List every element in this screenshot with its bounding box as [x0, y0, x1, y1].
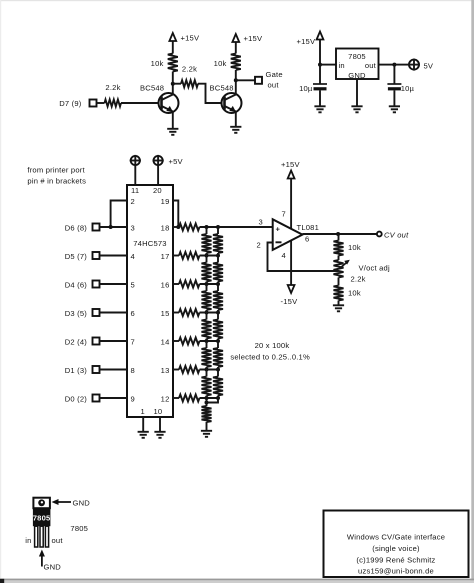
- svg-text:GND: GND: [348, 71, 366, 80]
- resistor 100k rung B rows 15-14: [217, 313, 219, 320]
- wire rail-right bottom jog: [207, 398, 219, 403]
- power +5V terminal (pin 20): [154, 156, 163, 165]
- svg-text:10k: 10k: [348, 289, 361, 298]
- op-amp U3 TL081: [273, 219, 303, 250]
- node psu input: [318, 63, 322, 67]
- junction rail-right row 17: [216, 254, 220, 258]
- svg-text:(single voice): (single voice): [372, 544, 420, 553]
- svg-text:+15V: +15V: [281, 160, 300, 169]
- svg-text:10k: 10k: [214, 59, 227, 68]
- svg-text:8: 8: [131, 366, 135, 375]
- resistor 10k (output divider bottom): [338, 278, 340, 286]
- svg-text:out: out: [365, 61, 377, 70]
- svg-text:7805: 7805: [33, 514, 51, 523]
- svg-text:GND: GND: [44, 563, 62, 572]
- wire pin 1 to ground: [142, 417, 144, 432]
- wire D7 to R1: [97, 102, 105, 104]
- capacitor 10u (output): [393, 65, 395, 84]
- svg-text:19: 19: [161, 197, 170, 206]
- svg-text:1: 1: [141, 407, 145, 416]
- wire gate out: [236, 79, 255, 81]
- terminal Gate out: [255, 77, 262, 84]
- svg-text:BC548: BC548: [140, 84, 164, 93]
- resistor 100k rung B rows 13-12: [217, 370, 219, 377]
- wire D1 to IC: [100, 369, 128, 371]
- wire Q1 collector: [172, 84, 174, 95]
- wire D4 to IC: [100, 283, 128, 285]
- resistor 10k (Q1 collector): [172, 72, 174, 84]
- resistor 100k rung A rows 17-16: [206, 256, 208, 263]
- svg-text:7805: 7805: [70, 524, 88, 533]
- wire U2 GND pin: [356, 79, 358, 106]
- terminal D3: [93, 309, 100, 316]
- svg-text:6: 6: [131, 309, 135, 318]
- svg-text:2: 2: [257, 241, 261, 250]
- wire ladder top to op-amp: [218, 226, 273, 228]
- svg-text:GND: GND: [73, 499, 91, 508]
- svg-text:10k: 10k: [151, 59, 164, 68]
- wire D2 to IC: [100, 340, 128, 342]
- wire to +15V (Q2): [235, 42, 237, 54]
- node psu output: [392, 63, 396, 67]
- svg-text:7: 7: [131, 338, 135, 347]
- svg-text:15: 15: [161, 309, 170, 318]
- junction rail-left row 13: [205, 368, 209, 372]
- resistor 100k rung A rows 13-12: [206, 370, 208, 377]
- junction rail-left row 12: [205, 396, 209, 400]
- 7805 leg out: [45, 526, 48, 547]
- wire op-amp output: [302, 233, 377, 235]
- terminal D6: [93, 224, 100, 231]
- wire Q2 collector: [235, 80, 237, 95]
- power -15V arrow (U3): [288, 285, 295, 293]
- junction rail-right row 15: [216, 311, 220, 315]
- svg-text:Gate: Gate: [266, 70, 283, 79]
- terminal CV out: [377, 232, 382, 237]
- svg-text:D4 (6): D4 (6): [65, 281, 88, 290]
- terminal D5: [93, 252, 100, 259]
- svg-text:+15V: +15V: [244, 34, 263, 43]
- svg-text:pin # in brackets: pin # in brackets: [27, 177, 86, 186]
- power +5V terminal (pin 11): [131, 156, 140, 165]
- svg-text:10µ: 10µ: [299, 84, 313, 93]
- power +15V arrow (Q1): [169, 33, 176, 41]
- regulator U2 7805: [336, 49, 379, 80]
- wire pin 11: [134, 166, 136, 185]
- svg-text:D0 (2): D0 (2): [65, 395, 88, 404]
- wire cap to ground: [319, 90, 321, 106]
- junction rail-left row 18: [205, 225, 209, 229]
- 7805 package body: [33, 508, 51, 526]
- svg-text:Windows CV/Gate interface: Windows CV/Gate interface: [347, 533, 445, 542]
- resistor 100k (pin 17): [173, 255, 179, 257]
- svg-text:12: 12: [161, 395, 170, 404]
- svg-text:6: 6: [305, 235, 309, 244]
- svg-text:7: 7: [282, 210, 286, 219]
- junction rail-left row 14: [205, 339, 209, 343]
- wire U2 out: [379, 64, 395, 66]
- ground (Q1 emitter): [167, 128, 178, 130]
- svg-text:from printer port: from printer port: [27, 166, 85, 175]
- junction rail-left row 17: [205, 254, 209, 258]
- terminal D0: [93, 395, 100, 402]
- svg-text:18: 18: [161, 224, 170, 233]
- wire node to U2 in: [320, 64, 336, 66]
- wire pin 2 loop to D6: [111, 201, 127, 228]
- junction pin19/pin18: [176, 225, 180, 229]
- wire to 5V: [394, 64, 409, 66]
- wire inverting input loop: [268, 243, 339, 272]
- node Q1 collector: [171, 82, 175, 86]
- ground (pin 10): [154, 431, 165, 433]
- node output: [336, 232, 340, 236]
- svg-text:D5 (7): D5 (7): [65, 252, 88, 261]
- svg-text:2.2k: 2.2k: [105, 83, 120, 92]
- svg-text:(c)1999 René Schmitz: (c)1999 René Schmitz: [356, 556, 435, 565]
- svg-text:out: out: [268, 81, 280, 90]
- svg-text:D6 (8): D6 (8): [65, 224, 88, 233]
- resistor 100k rung A rows 16-15: [206, 284, 208, 291]
- junction rail-right row 16: [216, 282, 220, 286]
- wire Q1 emitter: [172, 113, 174, 129]
- terminal D2: [93, 338, 100, 345]
- transistor Q2 BC548: [222, 93, 242, 113]
- resistor 100k (ladder terminator): [206, 398, 208, 406]
- svg-text:17: 17: [161, 252, 170, 261]
- pot wiper arrow: [340, 261, 349, 268]
- resistor 10k (output divider top): [338, 234, 340, 241]
- wire D6 to IC: [100, 226, 128, 228]
- title box: [324, 511, 469, 578]
- resistor 100k (pin 16): [173, 283, 179, 285]
- svg-text:TL081: TL081: [297, 223, 320, 232]
- 7805 package hole: [38, 499, 45, 506]
- terminal D1: [93, 366, 100, 373]
- resistor 100k rung B rows 18-17: [217, 227, 219, 234]
- junction rail-left row 16: [205, 282, 209, 286]
- svg-text:+15V: +15V: [297, 37, 316, 46]
- ground (input cap): [314, 105, 325, 107]
- svg-text:out: out: [52, 536, 64, 545]
- ground (ladder): [201, 430, 212, 432]
- resistor 100k rung B rows 17-16: [217, 256, 219, 263]
- svg-text:selected to 0.25..0.1%: selected to 0.25..0.1%: [230, 353, 310, 362]
- 7805 package tab: [33, 498, 50, 509]
- svg-text:20: 20: [153, 186, 162, 195]
- svg-text:2.2k: 2.2k: [182, 65, 197, 74]
- wire Q2 emitter: [235, 113, 237, 127]
- ground (pin 1): [138, 431, 149, 433]
- svg-text:+: +: [276, 225, 281, 234]
- resistor 100k rung A rows 15-14: [206, 313, 208, 320]
- wire output cap to ground: [393, 90, 395, 106]
- wire +15V to node: [319, 40, 321, 65]
- svg-text:9: 9: [131, 395, 135, 404]
- svg-text:+15V: +15V: [181, 34, 200, 43]
- svg-text:in: in: [339, 61, 345, 70]
- 7805 leg gnd: [40, 526, 43, 547]
- resistor R 2.2k (base Q1): [105, 100, 122, 107]
- arrow GND tab: [56, 501, 71, 503]
- resistor 100k (pin 14): [173, 340, 179, 342]
- svg-text:13: 13: [161, 366, 170, 375]
- wire interstage to Q2 base: [198, 84, 225, 103]
- arrow GND middle leg: [41, 554, 43, 567]
- svg-text:10µ: 10µ: [401, 84, 415, 93]
- node Q2 collector / gate out: [234, 78, 238, 82]
- wire D3 to IC: [100, 312, 128, 314]
- transistor Q1 BC548: [159, 93, 179, 113]
- resistor 100k (pin 12): [173, 397, 179, 399]
- IC U1 74HC573: [127, 185, 173, 417]
- 7805 leg in: [35, 526, 38, 547]
- ground (U2): [351, 105, 362, 107]
- wire D0 to IC: [100, 397, 128, 399]
- junction ladder bottom: [205, 401, 209, 405]
- svg-text:74HC573: 74HC573: [133, 239, 166, 248]
- svg-text:20 x 100k: 20 x 100k: [255, 341, 290, 350]
- svg-text:4: 4: [131, 252, 135, 261]
- svg-text:in: in: [25, 536, 31, 545]
- wire D5 to IC: [100, 255, 128, 257]
- wire to +15V: [172, 41, 174, 54]
- wire pin 19 jog: [173, 201, 178, 228]
- svg-text:5V: 5V: [424, 62, 434, 71]
- svg-text:D7 (9): D7 (9): [59, 99, 82, 108]
- resistor 100k (pin 13): [173, 369, 179, 371]
- ground (output cap): [389, 105, 400, 107]
- wire R to Q1 base: [121, 102, 162, 104]
- ground (divider): [333, 304, 344, 306]
- resistor 10k (Q2 collector): [235, 70, 237, 80]
- svg-text:CV out: CV out: [384, 231, 409, 240]
- svg-text:16: 16: [161, 281, 170, 290]
- wire +15V to op-amp and -15V: [290, 179, 292, 286]
- resistor 100k rung A rows 14-13: [206, 341, 208, 348]
- resistor 100k (pin 15): [173, 312, 179, 314]
- svg-text:5: 5: [131, 281, 135, 290]
- svg-text:D3 (5): D3 (5): [65, 309, 88, 318]
- junction rail-right row 14: [216, 339, 220, 343]
- wire pin 20: [157, 166, 159, 185]
- svg-text:14: 14: [161, 338, 170, 347]
- svg-text:2: 2: [131, 197, 135, 206]
- svg-text:2.2k: 2.2k: [351, 275, 366, 284]
- junction rail-right row 13: [216, 368, 220, 372]
- svg-text:D1 (3): D1 (3): [65, 366, 88, 375]
- resistor 100k rung A rows 18-17: [206, 227, 208, 234]
- wire divider to ground: [338, 301, 340, 306]
- svg-text:V/oct adj: V/oct adj: [359, 264, 390, 273]
- svg-text:3: 3: [131, 224, 135, 233]
- terminal D4: [93, 281, 100, 288]
- potentiometer 2.2k V/oct adj: [338, 256, 340, 261]
- power 5V terminal: [409, 60, 419, 70]
- resistor 100k rung B rows 14-13: [217, 341, 219, 348]
- svg-text:4: 4: [282, 251, 286, 260]
- svg-text:+5V: +5V: [169, 157, 184, 166]
- svg-text:D2 (4): D2 (4): [65, 338, 88, 347]
- terminal D7: [90, 100, 97, 107]
- svg-text:uzs159@uni-bonn.de: uzs159@uni-bonn.de: [358, 567, 434, 576]
- capacitor 10u (input): [319, 65, 321, 84]
- junction pin2/D6: [109, 225, 113, 229]
- ground (Q2 emitter): [230, 126, 241, 128]
- resistor 100k rung B rows 16-15: [217, 284, 219, 291]
- svg-text:7805: 7805: [348, 52, 366, 61]
- power +15V arrow (Q2): [232, 34, 239, 42]
- resistor 100k (pin 18): [173, 226, 179, 228]
- svg-text:10: 10: [154, 407, 163, 416]
- junction rail-right row 18: [216, 225, 220, 229]
- svg-text:3: 3: [259, 218, 263, 227]
- svg-text:BC548: BC548: [210, 84, 234, 93]
- svg-text:11: 11: [131, 186, 139, 195]
- junction rail-right row 12: [216, 396, 220, 400]
- junction rail-left row 15: [205, 311, 209, 315]
- resistor 2.2k (interstage): [173, 83, 181, 85]
- svg-text:-15V: -15V: [281, 297, 299, 306]
- wire pin 10 to ground: [159, 417, 161, 432]
- svg-text:10k: 10k: [348, 243, 361, 252]
